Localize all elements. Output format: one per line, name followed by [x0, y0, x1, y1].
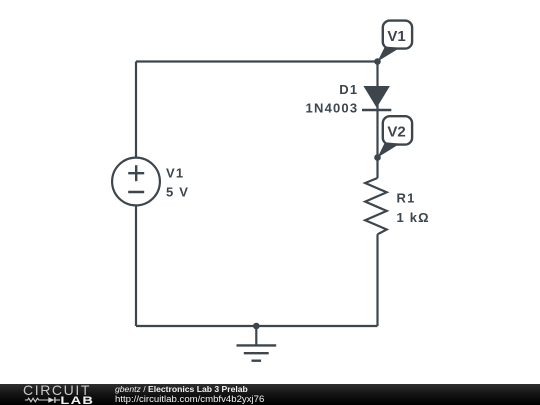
svg-text:1 kΩ: 1 kΩ [397, 210, 430, 225]
svg-text:LAB: LAB [60, 394, 94, 405]
svg-text:D1: D1 [339, 82, 358, 97]
svg-text:R1: R1 [397, 191, 416, 206]
svg-text:V1: V1 [387, 28, 405, 45]
svg-text:5 V: 5 V [166, 185, 189, 200]
svg-text:V2: V2 [387, 124, 405, 141]
svg-text:V1: V1 [166, 166, 184, 181]
svg-text:1N4003: 1N4003 [306, 100, 359, 115]
